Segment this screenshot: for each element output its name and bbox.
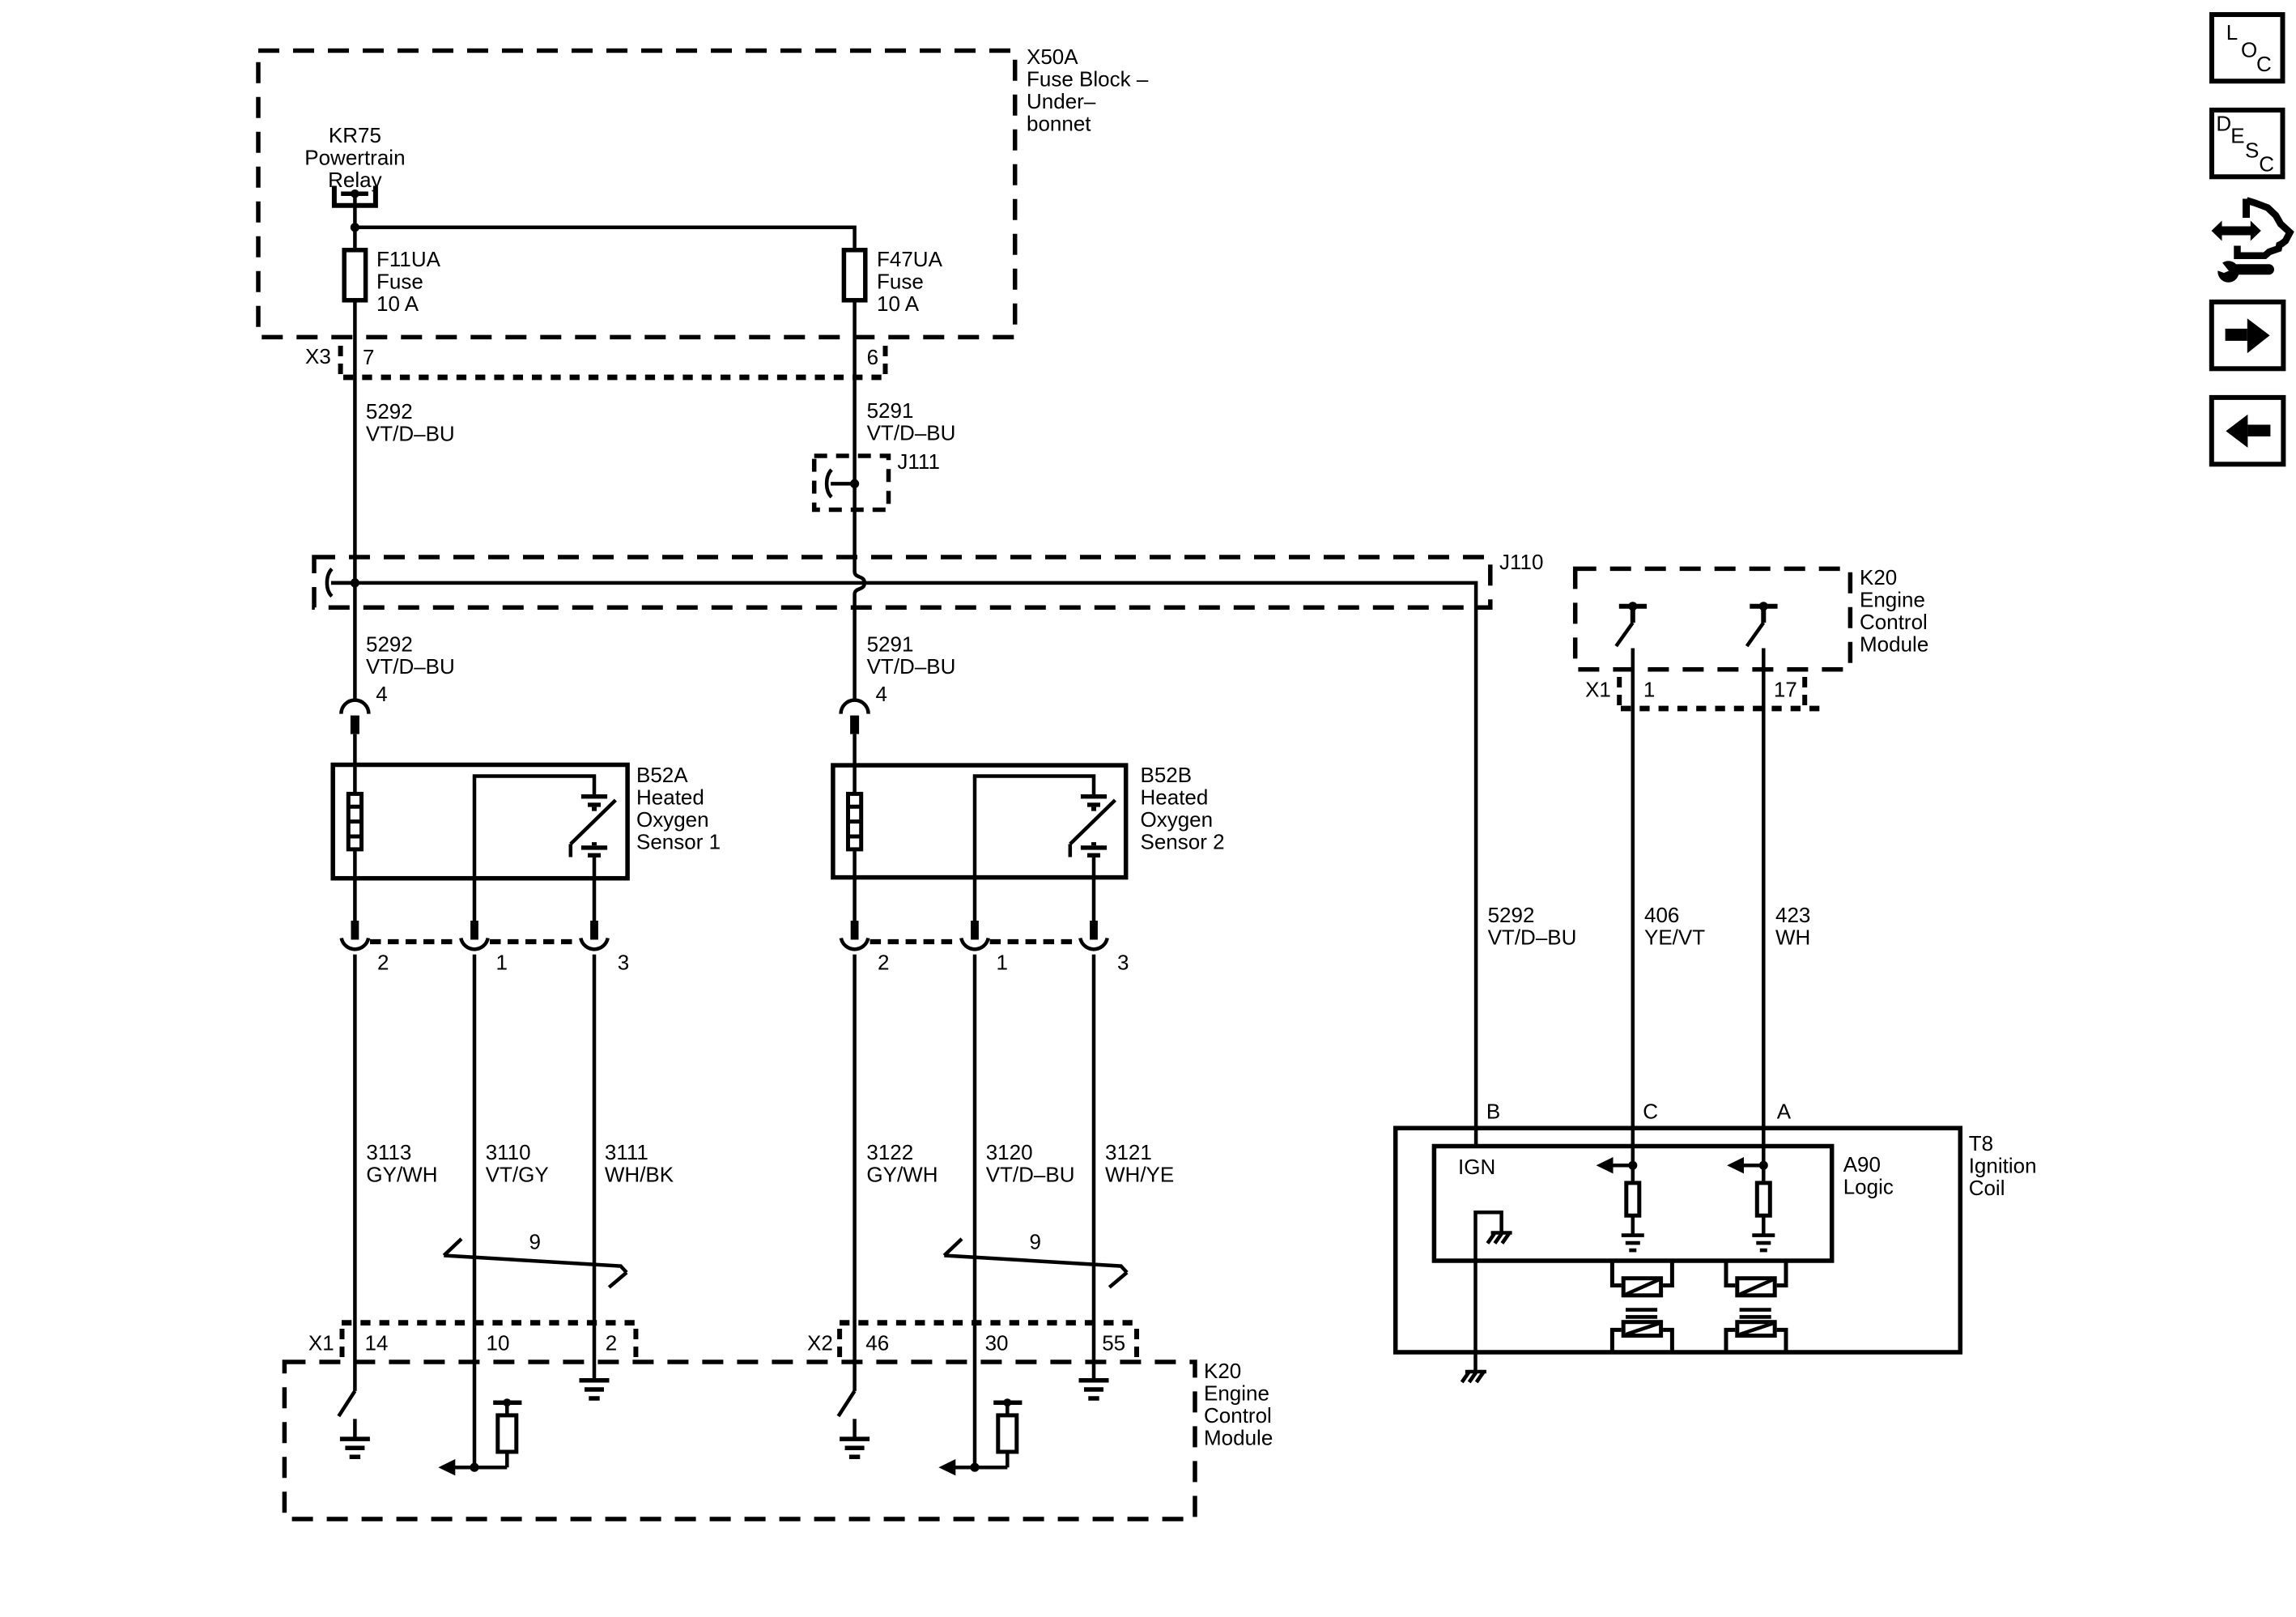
svg-text:B: B <box>1486 1100 1500 1124</box>
pin C label <box>1643 1100 1658 1124</box>
wire 3121 <box>1092 955 1096 1378</box>
pin connector 2 B52A <box>342 921 368 949</box>
pin 30 label <box>985 1331 1009 1355</box>
wire driver 1 down <box>1631 649 1635 1166</box>
pin 4 label left <box>376 682 387 706</box>
wire element to pin 3 B52A <box>593 857 597 924</box>
label K20 Engine Control Module top right <box>1860 565 1928 657</box>
wire 5291 below hop to connector 4 <box>852 594 857 700</box>
pin 17 label top right <box>1774 678 1797 702</box>
label J110 <box>1499 550 1543 574</box>
icon LOC box <box>2212 15 2283 81</box>
wire label 3122 GY/WH <box>866 1140 938 1187</box>
label F47UA Fuse 10 A <box>877 247 943 316</box>
connector X1 left bracket top right <box>1617 677 1622 707</box>
sensing element B52A <box>571 794 616 857</box>
connector row B52B dashed <box>870 939 1079 944</box>
wire F47UA down to J110 hop <box>852 303 857 572</box>
oxygen sensor B52B box <box>833 765 1126 878</box>
splice J111 symbol <box>827 470 859 497</box>
svg-text:C: C <box>1643 1100 1658 1124</box>
label X3 <box>305 344 331 368</box>
connector X1 right bracket bottom <box>633 1329 638 1357</box>
splice J110 left end symbol <box>327 569 359 597</box>
fuse block X50A dashed box <box>258 51 1015 338</box>
ignition coil T8 box <box>1396 1128 1961 1352</box>
engine control module K20 dashed box top right <box>1575 568 1851 669</box>
pin connector 3 B52B <box>1080 921 1107 949</box>
svg-text:IGN: IGN <box>1458 1155 1495 1179</box>
connector X1 left bracket bottom <box>340 1329 345 1357</box>
svg-text:3: 3 <box>618 951 629 975</box>
splice J111 dashed box <box>814 456 889 510</box>
wire connector to B52B <box>852 734 857 793</box>
label B52A Heated Oxygen Sensor 1 <box>636 763 721 854</box>
svg-text:30: 30 <box>985 1331 1009 1355</box>
wire label 5291 VT/D-BU lower <box>867 632 956 679</box>
svg-text:46: 46 <box>865 1331 889 1355</box>
wire 3113 <box>353 955 357 1391</box>
wire relay to junction <box>353 194 357 248</box>
pin 4 label right <box>876 682 887 706</box>
pin B label <box>1486 1100 1500 1124</box>
svg-text:A: A <box>1777 1100 1792 1124</box>
connector X1 dotted row bottom <box>342 1320 636 1326</box>
wire pin1 stub B52A <box>473 879 477 923</box>
ign ground wire <box>1476 1212 1502 1371</box>
wire label 5292 VT/D-BU upper <box>366 399 455 446</box>
input network pin 30 <box>938 1398 1022 1475</box>
connector X2 left bracket <box>837 1329 842 1357</box>
wire label 3120 VT/D-BU <box>986 1140 1075 1187</box>
driver switch pin 1 <box>1616 602 1647 646</box>
wire label 406 YE/VT <box>1644 903 1705 950</box>
splice pack J110 dashed box <box>314 557 1490 607</box>
svg-text:6: 6 <box>867 345 878 369</box>
pin 1 label B52A <box>496 951 508 975</box>
twisted lead symbol left <box>444 1239 627 1287</box>
pin 3 label B52B <box>1117 951 1129 975</box>
sensor feed wire B52B <box>975 777 1094 878</box>
fuse F11UA <box>344 250 365 300</box>
icon arrow left box <box>2212 398 2284 464</box>
connector X2 dotted row <box>840 1320 1137 1326</box>
driver switch pin 17 <box>1747 602 1778 646</box>
label KR75 Powertrain Relay <box>304 123 405 192</box>
svg-text:L: L <box>2226 20 2238 45</box>
pin connector 2 B52B <box>841 921 868 949</box>
svg-text:J111: J111 <box>897 449 940 474</box>
label J111 <box>897 449 940 474</box>
wire label 5292 VT/D-BU right <box>1488 903 1577 950</box>
pin connector 1 B52B <box>961 921 988 949</box>
svg-text:J110: J110 <box>1499 550 1543 574</box>
pin 2 label ecm <box>606 1331 617 1355</box>
wire label 3121 WH/YE <box>1105 1140 1174 1187</box>
switch to ground pin 46 <box>839 1391 870 1457</box>
svg-text:C: C <box>2256 52 2272 76</box>
heater element B52A <box>348 794 361 849</box>
wire 3120 <box>973 955 977 1468</box>
label IGN <box>1458 1155 1495 1179</box>
icon DESC box <box>2212 110 2283 177</box>
svg-text:2: 2 <box>606 1331 617 1355</box>
svg-text:3: 3 <box>1117 951 1129 975</box>
connector X3 right bracket <box>883 346 888 377</box>
svg-text:10: 10 <box>487 1331 510 1355</box>
ignition transformer 1 <box>1612 1261 1672 1352</box>
svg-text:1: 1 <box>496 951 508 975</box>
oxygen sensor B52A box <box>333 765 627 879</box>
svg-text:S: S <box>2245 138 2259 163</box>
label B52B Heated Oxygen Sensor 2 <box>1141 763 1225 854</box>
svg-text:9: 9 <box>529 1230 541 1254</box>
icon car body outline <box>2238 199 2290 256</box>
wire pin1 stub B52B <box>973 878 977 923</box>
svg-text:14: 14 <box>365 1331 389 1355</box>
wire heater to box bottom B52A <box>353 850 357 923</box>
inline connector 4 right <box>841 700 869 734</box>
svg-text:X2: X2 <box>807 1331 833 1355</box>
wire label 3111 WH/BK <box>605 1140 674 1187</box>
pin 2 label B52A <box>377 951 389 975</box>
connector row B52A dashed <box>370 939 579 944</box>
label T8 Ignition Coil <box>1969 1131 2037 1200</box>
wire label 3113 GY/WH <box>366 1140 437 1187</box>
svg-text:D: D <box>2216 112 2231 136</box>
pin 7 label <box>363 345 374 369</box>
label X1 top right <box>1585 678 1611 702</box>
chassis ground external T8 <box>1462 1372 1486 1382</box>
svg-text:E: E <box>2230 124 2244 148</box>
svg-text:17: 17 <box>1774 678 1797 702</box>
wire label 5291 VT/D-BU upper <box>867 398 956 445</box>
label 9 right <box>1030 1230 1041 1254</box>
wire label 5292 VT/D-BU lower <box>366 632 455 679</box>
label F11UA Fuse 10 A <box>376 247 441 316</box>
svg-text:2: 2 <box>377 951 389 975</box>
wire heater to box bottom B52B <box>852 850 857 923</box>
wire element to pin 3 B52B <box>1092 857 1096 924</box>
fuse F47UA <box>844 250 865 300</box>
svg-text:7: 7 <box>363 345 374 369</box>
svg-text:1: 1 <box>1643 678 1655 702</box>
pin 2 label B52B <box>878 951 889 975</box>
icon wrench <box>2212 259 2269 283</box>
pin 55 label <box>1102 1331 1125 1355</box>
pin connector 1 B52A <box>461 921 487 949</box>
logic module A90 box <box>1434 1147 1831 1262</box>
junction dot feed <box>351 223 359 232</box>
switch to ground pin 14 <box>338 1391 370 1457</box>
wire hop 5291 over J110 <box>855 572 865 594</box>
wire driver 17 down <box>1762 649 1766 1166</box>
inline connector 4 left <box>341 700 368 734</box>
svg-text:X1: X1 <box>1585 678 1611 702</box>
label K20 Engine Control Module bottom <box>1204 1359 1273 1450</box>
connector X2 right bracket <box>1134 1329 1139 1357</box>
pin connector 3 B52A <box>580 921 607 949</box>
relay KR75 contact symbol <box>334 186 376 206</box>
pin 1 label B52B <box>997 951 1008 975</box>
pin 1 label top right <box>1643 678 1655 702</box>
connector X1 dotted row top right <box>1621 706 1828 712</box>
wire label 3110 VT/GY <box>486 1140 549 1187</box>
sensing element B52B <box>1070 794 1116 857</box>
wire label 423 WH <box>1775 903 1810 950</box>
driver load C arrow resistor ground <box>1597 1157 1644 1250</box>
icon car double arrow <box>2212 221 2261 241</box>
svg-text:2: 2 <box>878 951 889 975</box>
icon arrow right box <box>2212 302 2284 368</box>
svg-text:9: 9 <box>1030 1230 1041 1254</box>
wire 3122 <box>852 955 857 1391</box>
svg-text:1: 1 <box>997 951 1008 975</box>
wire 3111 <box>593 955 597 1378</box>
label A90 Logic <box>1843 1152 1894 1199</box>
svg-text:O: O <box>2241 38 2257 62</box>
pin 3 label B52A <box>618 951 629 975</box>
connector X3 dotted row <box>343 375 882 381</box>
pin A label <box>1777 1100 1792 1124</box>
svg-text:X3: X3 <box>305 344 331 368</box>
chassis ground internal A90 <box>1487 1233 1512 1244</box>
wire 3110 <box>473 955 477 1468</box>
pin 6 label <box>867 345 878 369</box>
pin 14 label <box>365 1331 389 1355</box>
ground pin 55 <box>1079 1381 1109 1398</box>
label X50A Fuse Block Underbonnet <box>1027 45 1149 136</box>
svg-text:C: C <box>2259 152 2274 177</box>
sensor feed wire B52A <box>474 777 594 879</box>
twisted lead symbol right <box>944 1239 1127 1287</box>
svg-text:4: 4 <box>376 682 387 706</box>
svg-text:423WH: 423WH <box>1775 903 1810 950</box>
pin 10 label <box>487 1331 510 1355</box>
driver load A arrow resistor ground <box>1727 1157 1775 1250</box>
connector X1 right bracket top right <box>1802 677 1807 707</box>
label X2 <box>807 1331 833 1355</box>
pin 46 label <box>865 1331 889 1355</box>
input network pin 10 <box>438 1398 521 1475</box>
label X1 bottom <box>308 1331 334 1355</box>
svg-text:4: 4 <box>876 682 887 706</box>
svg-text:X1: X1 <box>308 1331 334 1355</box>
wire connector to B52A <box>353 734 357 793</box>
ignition transformer 2 <box>1726 1261 1786 1352</box>
svg-text:55: 55 <box>1102 1331 1125 1355</box>
bus wire J110 <box>331 583 1476 1147</box>
wire junction to F47UA <box>355 228 854 248</box>
connector X3 left bracket <box>338 346 343 377</box>
engine control module K20 dashed box bottom <box>284 1362 1195 1519</box>
ground pin 2 <box>580 1381 610 1398</box>
heater element B52B <box>848 794 861 849</box>
label 9 left <box>529 1230 541 1254</box>
wire F11UA to connector 4 <box>353 303 357 700</box>
